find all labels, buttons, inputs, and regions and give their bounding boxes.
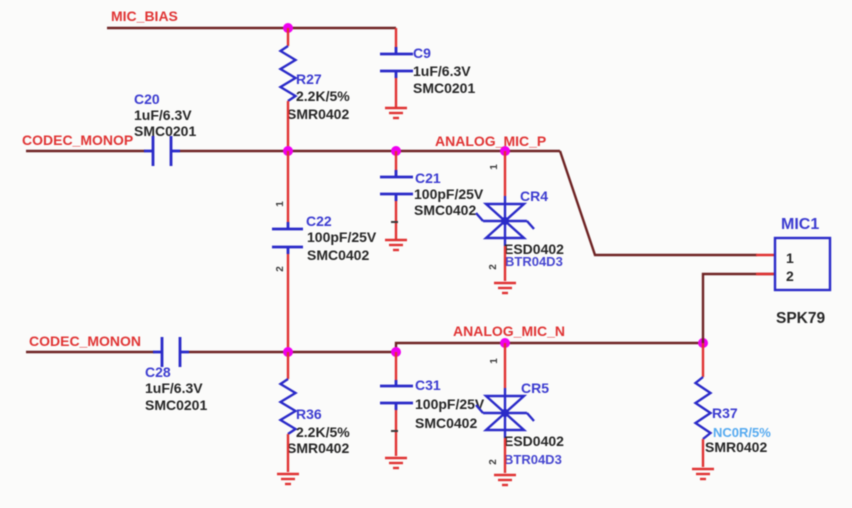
svg-text:SMC0201: SMC0201 (413, 80, 475, 96)
svg-text:SMC0402: SMC0402 (307, 247, 369, 263)
svg-text:SMC0201: SMC0201 (134, 123, 196, 139)
resistor R37 (696, 377, 711, 439)
ground under C31 (385, 458, 407, 468)
wire MIC1 pin 2 (703, 274, 775, 343)
svg-text:BTR04D3: BTR04D3 (505, 254, 563, 269)
svg-text:2: 2 (275, 266, 286, 272)
ground under C9 (385, 108, 407, 118)
svg-text:CR5: CR5 (521, 380, 549, 396)
resistor R36 (281, 379, 296, 434)
wire C22 top stub (287, 151, 289, 222)
capacitor C9 (380, 47, 413, 78)
ground under CR5 (494, 475, 516, 485)
junction CODEC_MONOP/CR4 (500, 146, 510, 156)
svg-text:SMC0201: SMC0201 (145, 397, 207, 413)
wire CODEC_MONOP left (26, 150, 145, 152)
svg-text:1uF/6.3V: 1uF/6.3V (413, 63, 471, 79)
svg-text:C20: C20 (134, 91, 160, 107)
svg-text:MIC1: MIC1 (781, 216, 819, 233)
svg-text:SMC0402: SMC0402 (415, 415, 477, 431)
wire R37 to ground (702, 439, 704, 467)
capacitor C21 (380, 151, 413, 201)
wire ANALOG_MIC_P diagonal to MIC1 pin 1 (560, 151, 757, 255)
capacitor C31 (380, 380, 413, 410)
wire R27 bottom stub (287, 101, 289, 151)
resistor R27 (281, 46, 296, 101)
wire MIC_BIAS horizontal (107, 27, 396, 29)
svg-text:100pF/25V: 100pF/25V (415, 396, 485, 412)
junction CODEC_MONON/R36 (283, 347, 293, 357)
wire R36 to ground (287, 434, 289, 472)
ground under R37 (692, 469, 714, 479)
wire CODEC_MONON main (189, 343, 703, 352)
wire C9 top drop (395, 28, 397, 48)
svg-text:C22: C22 (306, 213, 332, 229)
svg-text:1: 1 (275, 201, 286, 207)
wire MIC1 pin 2 stub (756, 273, 775, 275)
svg-text:C28: C28 (145, 364, 171, 380)
junction ANALOG_MIC_N/CR5 (500, 338, 510, 348)
junction CODEC_MONON/C31 (391, 347, 401, 357)
svg-text:R27: R27 (296, 71, 322, 87)
svg-text:2.2K/5%: 2.2K/5% (296, 88, 350, 104)
ground under R36 (277, 474, 299, 484)
svg-text:100pF/25V: 100pF/25V (307, 229, 377, 245)
capacitor C20 (144, 136, 180, 166)
svg-text:BTR04D3: BTR04D3 (504, 452, 562, 467)
junction CODEC_MONOP/R27/C22 (283, 146, 293, 156)
wire C31 to ground (395, 410, 397, 456)
wire C22 bottom stub (287, 254, 289, 352)
svg-text:C9: C9 (413, 45, 431, 61)
junction ANALOG_MIC_N/R37 (698, 338, 708, 348)
svg-text:1: 1 (786, 250, 794, 266)
svg-text:C31: C31 (415, 377, 441, 393)
ground under CR4 (494, 283, 516, 293)
wire CR4 to ground (504, 246, 506, 281)
svg-text:100pF/25V: 100pF/25V (414, 186, 484, 202)
svg-text:R36: R36 (296, 406, 322, 422)
svg-text:CR4: CR4 (520, 188, 548, 204)
svg-text:SMR0402: SMR0402 (287, 106, 349, 122)
capacitor C22 (272, 222, 303, 254)
wire C31 top stub (395, 352, 397, 380)
wire CODEC_MONON left (26, 351, 154, 353)
wire C21 to ground (395, 201, 397, 239)
diode CR5 (476, 388, 534, 438)
svg-text:1uF/6.3V: 1uF/6.3V (134, 107, 192, 123)
junction CODEC_MONOP/C21 (391, 146, 401, 156)
junction MIC_BIAS/R27 (283, 23, 293, 33)
svg-text:2: 2 (488, 264, 499, 270)
wire CR4 top stub (504, 151, 506, 196)
svg-text:1uF/6.3V: 1uF/6.3V (145, 380, 203, 396)
svg-text:ANALOG_MIC_P: ANALOG_MIC_P (435, 133, 546, 149)
svg-text:SMC0402: SMC0402 (414, 202, 476, 218)
wire R37 top stub (702, 343, 704, 377)
svg-text:1: 1 (489, 164, 500, 170)
svg-text:2: 2 (488, 459, 499, 465)
svg-text:2: 2 (786, 268, 794, 284)
ground under C21 (385, 240, 407, 250)
svg-text:CODEC_MONON: CODEC_MONON (29, 333, 141, 349)
svg-text:SMR0402: SMR0402 (705, 439, 767, 455)
svg-text:ANALOG_MIC_N: ANALOG_MIC_N (453, 323, 565, 339)
svg-text:R37: R37 (712, 405, 738, 421)
wire R36 top stub (287, 352, 289, 379)
svg-text:MIC_BIAS: MIC_BIAS (111, 8, 178, 24)
wire CR5 top stub (504, 343, 506, 388)
svg-text:2.2K/5%: 2.2K/5% (296, 424, 350, 440)
C21 pin 2 tick (391, 221, 398, 223)
wire R27 top stub (287, 28, 289, 46)
connector MIC1 box (775, 238, 830, 290)
C31 pin 2 tick (391, 430, 398, 432)
capacitor C28 (153, 337, 189, 367)
diode CR4 (476, 196, 534, 246)
svg-text:NC0R/5%: NC0R/5% (713, 425, 771, 440)
svg-text:1: 1 (489, 358, 500, 364)
svg-text:C21: C21 (415, 170, 441, 186)
svg-text:ESD0402: ESD0402 (504, 433, 564, 449)
svg-text:SMR0402: SMR0402 (287, 440, 349, 456)
wire MIC1 pin 1 stub (756, 254, 775, 256)
wire C9 to ground (395, 78, 397, 107)
svg-text:SPK79: SPK79 (776, 310, 825, 327)
wire CR5 to ground (504, 438, 506, 473)
svg-text:CODEC_MONOP: CODEC_MONOP (22, 132, 133, 148)
wire CODEC_MONOP main (180, 150, 560, 152)
